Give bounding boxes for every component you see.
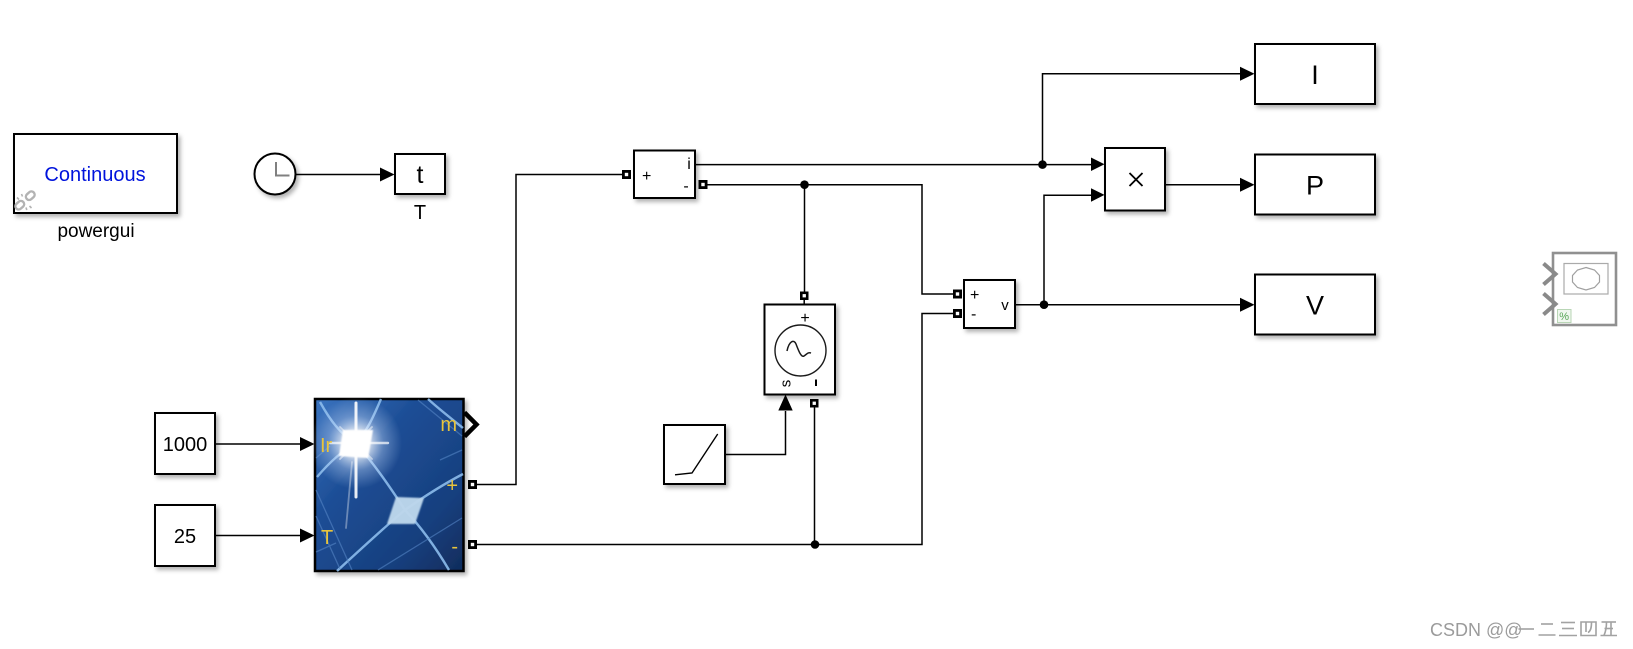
current meter + input port <box>622 170 631 179</box>
wire clock to t <box>296 168 395 182</box>
voltmeter - input port <box>953 309 962 318</box>
current meter - output port <box>699 180 708 189</box>
scope I <box>1255 44 1375 104</box>
wire PV+ to current meter + input <box>477 175 622 485</box>
wire junction up to product second input <box>1044 195 1093 304</box>
wire 1000 to PV Ir input <box>215 437 315 451</box>
controlled voltage source block <box>765 305 836 395</box>
svg-text:i: i <box>687 156 691 173</box>
PV m output chevron <box>465 413 477 437</box>
svg-text:Ir: Ir <box>320 435 333 457</box>
wire current meter i output to product and I scope <box>695 164 1093 166</box>
product block <box>1105 148 1165 211</box>
svg-text:-: - <box>683 178 688 195</box>
svg-text:m: m <box>440 414 457 436</box>
source - output port <box>810 399 819 408</box>
powergui broken-link icon <box>14 190 36 211</box>
wire 25 to PV T input <box>215 529 315 543</box>
watermark hanzi 一 <box>1519 628 1535 630</box>
svg-text:V: V <box>1306 291 1324 321</box>
commented-out percent badge <box>1558 310 1572 324</box>
faded library scope block <box>1553 253 1616 325</box>
wire junction up to I scope <box>1043 74 1243 165</box>
PV array block <box>310 397 464 571</box>
faded input chevron 1 <box>1544 264 1556 285</box>
svg-text:CSDN @@: CSDN @@ <box>1430 620 1523 640</box>
wire source - down to PV- bus <box>814 408 816 545</box>
wire ramp to source s input <box>725 411 786 455</box>
svg-text:+: + <box>970 287 979 304</box>
clock block <box>255 154 296 195</box>
ramp block <box>664 425 725 484</box>
svg-text:s: s <box>778 380 795 388</box>
junction on PV- wire <box>811 540 820 549</box>
svg-text:powergui: powergui <box>57 221 134 242</box>
junction on v wire <box>1040 300 1049 309</box>
watermark hanzi 三 <box>1559 623 1577 636</box>
svg-text:1000: 1000 <box>163 434 208 456</box>
constant 1000 <box>155 413 215 474</box>
PV lower cell pad <box>387 497 424 524</box>
constant 25 <box>155 505 215 566</box>
svg-text:-: - <box>451 536 458 558</box>
svg-text:T: T <box>321 527 333 549</box>
current measurement block <box>634 151 695 199</box>
watermark hanzi 二 <box>1539 624 1556 635</box>
wire junction down to source + port <box>804 185 806 292</box>
svg-text:+: + <box>642 168 651 185</box>
svg-text:25: 25 <box>174 526 196 548</box>
svg-text:v: v <box>1001 297 1009 314</box>
svg-text:T: T <box>414 202 426 224</box>
svg-text:%: % <box>1559 311 1569 323</box>
svg-text:+: + <box>446 475 458 497</box>
svg-text:I: I <box>1311 60 1319 90</box>
PV - output port <box>468 540 477 549</box>
svg-text:P: P <box>1306 171 1324 201</box>
controlled voltage source + port <box>800 292 809 305</box>
wire product output to P scope <box>1165 184 1242 186</box>
watermark hanzi 四 <box>1581 622 1596 636</box>
PV upper cell pad and lens flare <box>310 397 402 489</box>
wire current meter - output to source + and voltmeter + <box>708 185 954 294</box>
voltage measurement block <box>964 280 1015 328</box>
watermark CSDN <box>1430 620 1523 640</box>
junction on - wire <box>800 180 809 189</box>
svg-text:-: - <box>971 306 976 323</box>
svg-text:t: t <box>417 161 424 189</box>
voltmeter + input port <box>953 290 962 299</box>
junction on i wire <box>1038 160 1047 169</box>
scope V <box>1255 275 1375 335</box>
To-Workspace t block <box>395 154 445 194</box>
wire voltmeter v output to V scope <box>1015 304 1242 306</box>
powergui block <box>14 134 177 213</box>
wire PV- to voltmeter - input (bus) <box>477 314 953 545</box>
watermark hanzi 五 <box>1601 622 1618 636</box>
faded input chevron 2 <box>1544 294 1556 315</box>
source s input arrow <box>778 395 792 411</box>
scope P <box>1255 155 1375 215</box>
PV + output port <box>468 480 477 489</box>
svg-text:Continuous: Continuous <box>44 164 145 186</box>
